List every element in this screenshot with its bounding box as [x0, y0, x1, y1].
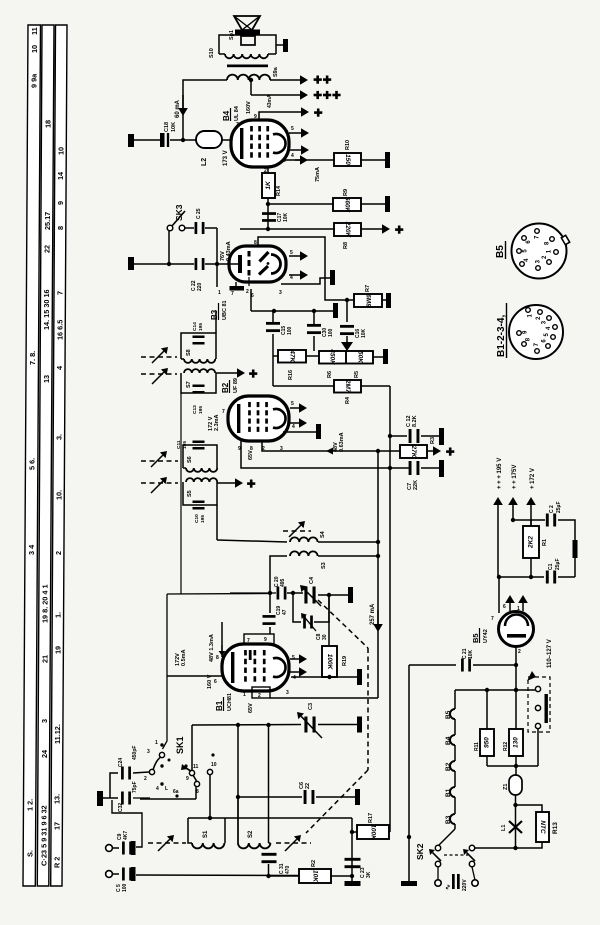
svg-text:9: 9 — [186, 776, 189, 782]
svg-text:950: 950 — [484, 737, 491, 748]
svg-text:B3: B3 — [210, 309, 219, 320]
svg-text:47: 47 — [282, 609, 288, 615]
svg-text:C32: C32 — [118, 803, 124, 812]
svg-text:S7: S7 — [186, 381, 192, 388]
svg-text:23 5 9 31 9 6 32: 23 5 9 31 9 6 32 — [39, 805, 48, 858]
svg-text:17: 17 — [53, 822, 62, 830]
svg-text:43mA: 43mA — [267, 94, 273, 108]
svg-text:R13: R13 — [552, 822, 559, 834]
svg-text:S8: S8 — [186, 349, 192, 356]
svg-text:5: 5 — [291, 401, 294, 407]
svg-text:3: 3 — [286, 690, 289, 696]
svg-text:220K: 220K — [344, 221, 351, 239]
svg-text:7: 7 — [56, 291, 65, 295]
svg-text:1: 1 — [218, 290, 221, 296]
svg-text:8: 8 — [254, 240, 257, 246]
svg-text:19 8. 20 4 1: 19 8. 20 4 1 — [41, 584, 50, 623]
svg-text:R6: R6 — [327, 371, 333, 378]
svg-text:11.12.: 11.12. — [53, 724, 62, 744]
svg-text:4: 4 — [290, 275, 293, 281]
svg-text:C11: C11 — [176, 440, 182, 449]
svg-text:Z1: Z1 — [503, 784, 509, 790]
svg-text:10: 10 — [211, 762, 217, 768]
svg-text:R9: R9 — [343, 189, 349, 196]
svg-text:50K: 50K — [357, 351, 364, 364]
svg-text:7: 7 — [222, 409, 225, 415]
svg-text:C18: C18 — [164, 122, 170, 132]
svg-text:100: 100 — [328, 328, 334, 337]
svg-text:7: 7 — [236, 122, 239, 128]
svg-text:C13: C13 — [192, 405, 198, 414]
svg-text:R7: R7 — [365, 285, 371, 292]
svg-text:NTC: NTC — [539, 820, 546, 834]
svg-text:47K: 47K — [289, 349, 296, 363]
svg-text:3 4: 3 4 — [27, 544, 36, 555]
svg-text:SK2: SK2 — [415, 843, 425, 860]
svg-text:13: 13 — [42, 375, 51, 383]
svg-text:1: 1 — [155, 740, 158, 746]
svg-text:8: 8 — [216, 655, 219, 661]
svg-text:B1-2-3-4,: B1-2-3-4, — [496, 315, 507, 357]
svg-text:1 2.: 1 2. — [26, 799, 35, 811]
svg-text:C10: C10 — [194, 514, 200, 523]
svg-text:R12: R12 — [503, 742, 509, 751]
svg-text:7: 7 — [247, 638, 250, 644]
svg-text:R3: R3 — [430, 437, 436, 444]
svg-text:S9a: S9a — [273, 66, 279, 77]
svg-text:S1: S1 — [203, 830, 209, 838]
svg-text:100: 100 — [122, 883, 128, 892]
svg-text:S.: S. — [25, 850, 34, 857]
svg-text:6M8: 6M8 — [365, 294, 372, 307]
svg-text:9: 9 — [254, 114, 257, 120]
svg-text:2K2: 2K2 — [528, 536, 535, 549]
svg-text:10: 10 — [56, 147, 65, 155]
svg-text:60 mA: 60 mA — [175, 99, 181, 118]
svg-text:25µF: 25µF — [555, 559, 561, 571]
svg-text:13.: 13. — [53, 794, 62, 804]
svg-text:1K: 1K — [265, 180, 272, 190]
svg-text:5: 5 — [292, 655, 295, 661]
svg-text:L1: L1 — [501, 825, 507, 831]
svg-text:16 6.5: 16 6.5 — [55, 320, 64, 340]
svg-text:22: 22 — [305, 783, 311, 789]
svg-text:B5: B5 — [471, 633, 480, 643]
svg-text:27K: 27K — [410, 445, 417, 459]
svg-text:7: 7 — [491, 616, 494, 622]
svg-text:S4: S4 — [320, 530, 326, 538]
svg-text:6: 6 — [503, 604, 506, 610]
svg-text:11: 11 — [30, 27, 39, 35]
svg-text:2M7: 2M7 — [344, 379, 351, 393]
svg-text:B4: B4 — [222, 110, 231, 121]
svg-text:B5: B5 — [495, 245, 506, 258]
svg-text:R5: R5 — [354, 371, 360, 378]
svg-text:3: 3 — [40, 719, 49, 723]
svg-text:21: 21 — [40, 655, 49, 663]
svg-text:470: 470 — [285, 865, 291, 874]
svg-text:UBC 81: UBC 81 — [222, 300, 228, 320]
svg-text:4K7: 4K7 — [123, 831, 129, 840]
svg-text:S10: S10 — [209, 48, 215, 58]
svg-text:3: 3 — [279, 290, 282, 296]
svg-text:R4: R4 — [345, 396, 351, 404]
svg-text:450K: 450K — [329, 348, 336, 366]
svg-text:48V 1.3mA: 48V 1.3mA — [209, 634, 215, 662]
svg-text:19: 19 — [54, 646, 63, 654]
svg-text:18: 18 — [43, 120, 52, 128]
svg-text:10K: 10K — [312, 870, 319, 883]
svg-text:130: 130 — [513, 737, 520, 748]
svg-text:65V: 65V — [248, 703, 254, 713]
svg-text:25µF: 25µF — [556, 502, 562, 514]
svg-text:22: 22 — [43, 245, 52, 253]
svg-text:5: 5 — [291, 126, 294, 132]
svg-text:C3: C3 — [308, 703, 314, 710]
svg-text:14: 14 — [56, 171, 65, 180]
svg-text:R17: R17 — [368, 813, 374, 823]
svg-text:1: 1 — [517, 606, 520, 612]
svg-text:10: 10 — [30, 45, 39, 53]
svg-text:+ 172 V: + 172 V — [530, 468, 536, 489]
svg-text:R11: R11 — [474, 742, 480, 751]
svg-text:9: 9 — [264, 637, 267, 643]
svg-text:7: 7 — [231, 291, 234, 297]
svg-text:R16: R16 — [288, 370, 294, 380]
svg-text:R10: R10 — [345, 140, 351, 150]
svg-text:∿: ∿ — [445, 884, 452, 890]
svg-text:4: 4 — [292, 424, 295, 430]
svg-text:560K: 560K — [344, 197, 351, 214]
svg-text:5: 5 — [290, 250, 293, 256]
svg-text:B2: B2 — [221, 382, 230, 393]
svg-text:25.17: 25.17 — [43, 212, 52, 230]
svg-text:2.3mA: 2.3mA — [214, 414, 220, 431]
svg-text:9: 9 — [56, 201, 65, 205]
svg-text:1: 1 — [243, 692, 246, 698]
svg-text:0.63mA: 0.63mA — [339, 432, 345, 452]
svg-text:5 6.: 5 6. — [28, 458, 37, 470]
svg-text:S6: S6 — [187, 456, 193, 463]
svg-text:+ + 175V: + + 175V — [512, 465, 518, 489]
svg-text:160 V: 160 V — [207, 674, 213, 689]
svg-text:R2: R2 — [311, 860, 317, 867]
svg-text:8.2K: 8.2K — [412, 415, 418, 427]
svg-text:220V: 220V — [462, 879, 468, 891]
svg-text:6a: 6a — [173, 789, 179, 795]
svg-text:220: 220 — [197, 282, 203, 291]
svg-text:30: 30 — [322, 634, 328, 640]
svg-text:S5: S5 — [187, 490, 193, 497]
svg-text:R14: R14 — [276, 185, 282, 196]
svg-text:+ + + 195 V: + + + 195 V — [497, 458, 503, 489]
svg-text:75mA: 75mA — [315, 167, 321, 182]
svg-text:110–127 V: 110–127 V — [547, 639, 553, 668]
svg-text:257 mA: 257 mA — [370, 603, 376, 625]
svg-text:100K: 100K — [370, 824, 377, 841]
svg-text:4: 4 — [156, 786, 159, 792]
svg-text:10K: 10K — [468, 649, 474, 659]
svg-text:150: 150 — [344, 154, 351, 165]
svg-text:UCH81: UCH81 — [227, 693, 233, 711]
svg-text:C 2: C 2 — [549, 505, 555, 513]
svg-text:14. 15 30 16: 14. 15 30 16 — [42, 289, 51, 330]
svg-text:9 9a: 9 9a — [30, 73, 39, 88]
svg-text:UF 89: UF 89 — [233, 378, 239, 393]
svg-text:160V: 160V — [246, 101, 252, 114]
svg-text:UY42: UY42 — [483, 629, 489, 643]
svg-text:3: 3 — [147, 749, 150, 755]
svg-text:173 V: 173 V — [223, 150, 229, 166]
svg-text:C24: C24 — [118, 758, 124, 767]
svg-text:65V: 65V — [248, 450, 254, 460]
svg-text:8: 8 — [56, 226, 65, 230]
svg-text:S3: S3 — [321, 562, 327, 569]
svg-text:10K: 10K — [283, 212, 289, 222]
svg-text:0.5mA: 0.5mA — [181, 649, 187, 666]
svg-text:6: 6 — [214, 679, 217, 685]
svg-text:R 2: R 2 — [52, 857, 61, 868]
svg-text:C1: C1 — [548, 563, 554, 570]
svg-text:3: 3 — [283, 158, 286, 164]
svg-text:C4: C4 — [309, 576, 315, 584]
svg-text:7. 8.: 7. 8. — [28, 351, 37, 365]
svg-text:75pF: 75pF — [132, 781, 138, 793]
svg-text:11: 11 — [193, 764, 199, 770]
svg-text:2: 2 — [518, 649, 521, 655]
svg-text:UL 84: UL 84 — [234, 105, 240, 121]
svg-text:22K: 22K — [413, 480, 419, 490]
svg-text:195: 195 — [200, 515, 206, 523]
svg-text:195: 195 — [198, 323, 204, 331]
svg-text:100: 100 — [287, 326, 293, 335]
svg-text:10K: 10K — [171, 122, 177, 132]
svg-text:C·: C· — [39, 858, 48, 866]
svg-text:S2: S2 — [248, 830, 254, 838]
svg-text:450pF: 450pF — [132, 746, 138, 760]
svg-text:4: 4 — [291, 153, 294, 159]
svg-text:R19: R19 — [342, 656, 348, 666]
svg-text:100K: 100K — [326, 654, 333, 671]
svg-text:2: 2 — [246, 289, 249, 295]
svg-text:L: L — [165, 786, 168, 792]
svg-text:B1: B1 — [215, 700, 224, 711]
svg-text:1.: 1. — [54, 612, 63, 618]
svg-text:SK1: SK1 — [175, 736, 185, 754]
svg-text:L2: L2 — [201, 158, 208, 166]
svg-text:10.: 10. — [54, 490, 63, 500]
svg-text:3.: 3. — [55, 434, 64, 440]
svg-text:C14: C14 — [192, 322, 198, 331]
svg-text:10K: 10K — [361, 328, 367, 338]
svg-text:R8: R8 — [343, 242, 349, 249]
svg-text:24: 24 — [40, 749, 49, 758]
svg-text:2: 2 — [54, 551, 63, 555]
svg-text:495: 495 — [280, 578, 286, 587]
svg-text:4: 4 — [293, 675, 296, 681]
svg-text:3K: 3K — [366, 871, 372, 878]
svg-text:2: 2 — [144, 776, 147, 782]
svg-text:195: 195 — [198, 406, 204, 414]
svg-text:R1: R1 — [542, 539, 548, 546]
svg-text:C 25: C 25 — [196, 208, 202, 219]
